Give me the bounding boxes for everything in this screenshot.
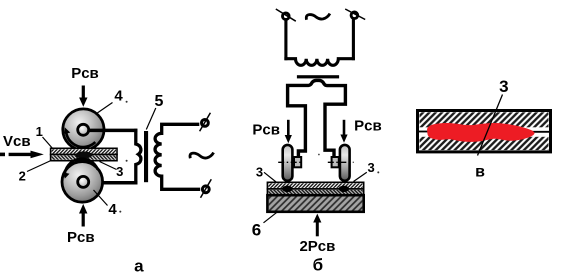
upper sheet hatch band — [420, 112, 549, 127]
weld nugget left (fig b) — [282, 186, 292, 192]
wire: right lead down — [352, 19, 355, 60]
svg-text:2: 2 — [19, 169, 26, 184]
secondary single-turn loop (T shape) — [288, 80, 346, 158]
svg-text:3: 3 — [256, 164, 263, 179]
svg-text:Vсв: Vсв — [3, 133, 31, 150]
leader line 3 (fig v) — [478, 95, 503, 156]
svg-text:Рсв: Рсв — [67, 229, 95, 246]
sheet interface line left — [418, 131, 430, 133]
wire: bottom busbar from hub to transformer — [88, 181, 137, 185]
svg-text:в: в — [475, 164, 485, 181]
axle block left — [294, 157, 301, 167]
terminal bottom (circle with slash) — [201, 179, 212, 198]
hub of top roller — [78, 124, 89, 135]
sheet pack (fig a): upper sheet hatched — [51, 148, 117, 154]
stray speck after label 3 right — [377, 171, 379, 173]
leader line 3 left (fig b) — [264, 172, 278, 183]
axle block right — [332, 157, 339, 167]
primary coil (arcs facing down) — [284, 59, 355, 66]
axle dash-dot line right — [328, 161, 354, 163]
force arrow right (down) — [340, 120, 347, 143]
terminal top (circle with slash) — [200, 113, 211, 132]
svg-text:4: 4 — [108, 201, 117, 218]
AC source tilde (fig a) — [190, 153, 214, 159]
svg-text:2Рсв: 2Рсв — [299, 238, 335, 255]
force arrow 2Pсв (up) — [313, 214, 321, 237]
svg-text:5: 5 — [154, 93, 163, 110]
leader line 1 — [43, 137, 54, 150]
sheet pack (fig b): upper sheet hatched — [267, 182, 363, 189]
axle dash-dot line left — [278, 161, 303, 163]
wire: left lead down — [284, 20, 287, 60]
svg-text:Рсв: Рсв — [252, 122, 280, 139]
svg-text:3: 3 — [499, 77, 508, 96]
roller electrode top (4) — [63, 109, 104, 150]
transformer core — [144, 131, 148, 182]
overlapping weld nuggets (red seam) — [427, 123, 534, 142]
lower sheet hatch band — [420, 137, 549, 150]
stray speck near label 4 top — [126, 101, 128, 103]
stray speck between legs — [318, 154, 320, 156]
svg-text:а: а — [134, 257, 144, 276]
wheel electrode right — [340, 145, 350, 181]
svg-text:б: б — [313, 256, 324, 275]
wheel electrode left — [283, 145, 293, 181]
leader line 6 — [264, 212, 278, 223]
svg-text:Рсв: Рсв — [71, 65, 99, 82]
backing plate 6 — [267, 195, 363, 212]
leader line 5 — [146, 108, 156, 130]
leader line 3 (fig a) — [100, 162, 117, 170]
force arrow Pсв top (down) — [79, 86, 87, 107]
AC source tilde (fig b) — [306, 14, 330, 20]
rotation arrow on bottom roller — [63, 159, 98, 179]
svg-text:1: 1 — [36, 124, 43, 139]
weld nugget (fig a) — [75, 151, 92, 158]
sheet pack (fig b): lower sheet hatched — [267, 189, 363, 195]
weld nugget right (fig b) — [339, 186, 349, 192]
svg-text:6: 6 — [252, 220, 261, 239]
leader line 2 — [27, 161, 51, 172]
svg-text:4: 4 — [114, 88, 123, 105]
leader line 3 right (fig b) — [354, 172, 367, 181]
sheet interface line right — [531, 131, 551, 133]
stray speck near label 3 fig a — [126, 160, 128, 162]
transformer secondary winding and wires to terminals — [155, 124, 200, 189]
sheet pack (fig a): lower sheet hatched — [51, 155, 117, 161]
rotation arrow on top roller — [64, 127, 95, 147]
svg-text:3: 3 — [116, 164, 123, 179]
terminal right (circle with slash) — [345, 9, 365, 20]
force arrow left (down) — [285, 120, 292, 144]
roller electrode bottom (4) — [62, 162, 103, 203]
stray speck near label 4 bottom — [119, 211, 121, 213]
leader line 4 top — [89, 103, 113, 120]
svg-text:Рсв: Рсв — [354, 118, 382, 135]
svg-text:3: 3 — [367, 160, 374, 175]
terminal left (circle with slash) — [276, 9, 296, 21]
wire: right vertical with primary coil bumps — [136, 129, 141, 185]
speed arrow Vсв (right) — [0, 151, 44, 159]
wire: top busbar from hub to transformer — [88, 129, 137, 133]
section body rectangle — [418, 111, 551, 152]
hub of bottom roller — [78, 176, 89, 187]
leader line 4 bottom — [94, 190, 108, 206]
force arrow Pсв bottom (up) — [79, 204, 87, 227]
transformer core (fig b) — [297, 75, 339, 78]
